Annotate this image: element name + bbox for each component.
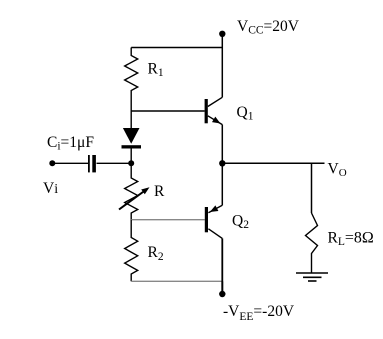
label -VEE=-20V [223,303,295,323]
svg-text:VCC=20V: VCC=20V [237,18,300,37]
label R [154,183,165,200]
node VEE terminal [219,291,225,297]
label VCC=20V [237,18,300,37]
node A junction [128,160,134,166]
label R2 [148,244,164,263]
node B output junction [219,160,225,166]
wire Q2 base [131,219,205,221]
resistor R2 [125,220,138,282]
wire VEE stub [221,281,223,294]
transistor Q2 [205,205,223,238]
label Q2 [232,213,249,232]
svg-text:Ci=1μF: Ci=1μF [47,134,94,153]
label R1 [148,61,164,80]
label Vi [43,180,58,197]
wire top rail [131,47,222,49]
wire diode anode lead [130,111,132,128]
wire input to capacitor [52,162,88,164]
wire output to Vo [222,162,324,164]
arrow of variable resistor R [119,187,150,209]
wire Q1 emitter [221,125,223,164]
svg-text:Vi: Vi [43,180,58,197]
resistor RL [306,213,318,273]
wire Q1 collector [221,48,223,98]
label RL=8ohm [328,230,374,249]
capacitor Ci [88,155,96,172]
resistor R variable [125,163,138,219]
wire RL branch [311,163,313,213]
node VCC terminal [219,31,225,37]
diode D1 [122,128,142,163]
ground [296,273,328,281]
label Ci=1uF [47,134,94,153]
transistor Q1 [205,97,223,124]
wire Q1 base [131,110,204,112]
wire Q2 emitter [221,163,223,205]
resistor R1 [125,48,138,112]
svg-text:RL=8Ω: RL=8Ω [328,230,374,249]
label Q1 [237,104,254,123]
node input terminal [49,160,55,166]
wire bottom rail [131,280,222,282]
svg-text:R: R [154,183,165,200]
label Vo [328,161,347,180]
wire VCC stub [221,34,223,48]
wire capacitor to node A [97,162,132,164]
wire Q2 collector [221,238,223,294]
